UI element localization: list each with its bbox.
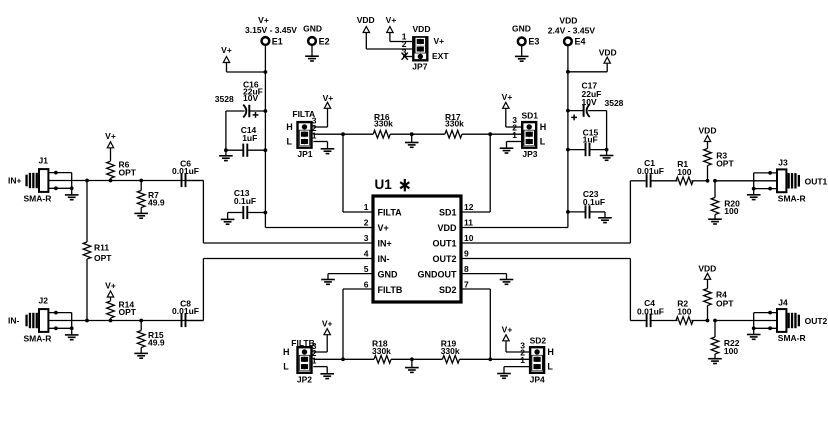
svg-text:SD2: SD2 [439, 285, 457, 295]
ground on U1 pin 8 [461, 274, 513, 285]
svg-text:V+: V+ [105, 131, 116, 141]
wire R1 to OUT1 node [692, 180, 708, 182]
svg-text:100: 100 [677, 167, 691, 177]
svg-text:OUT1: OUT1 [432, 238, 456, 248]
wire node SD2 to JP4 pin 2 [490, 358, 529, 360]
wire V+ rail to U1 pin 2 [265, 227, 373, 229]
ground below R7 [134, 213, 148, 218]
wire OUT2 node to J4 [715, 320, 777, 322]
svg-text:OPT: OPT [716, 159, 734, 169]
junction R7 top [139, 179, 143, 183]
wire R16 to center ground node [390, 133, 412, 135]
jumper JP1 (FILTA H/L) [286, 109, 316, 159]
power flag V+ above JP2 [313, 319, 332, 353]
resistor R6 OPT [107, 160, 137, 181]
wire node SD2 up to U1 pin 7 [489, 289, 491, 359]
wire node FILTB down to JP2 row [342, 289, 344, 359]
svg-text:8: 8 [464, 264, 469, 274]
svg-text:330k: 330k [372, 346, 391, 356]
svg-text:V+: V+ [322, 319, 333, 329]
svg-text:GNDOUT: GNDOUT [418, 269, 457, 279]
wire C16 to C14 ground leg [225, 111, 227, 150]
junction V+ rail / V+ flag [264, 70, 268, 74]
power flag VDD (JP7 pin 2) [357, 15, 412, 49]
svg-text:4: 4 [364, 249, 369, 259]
test point E1 (V+ 3.15V - 3.45V) [245, 15, 297, 46]
capacitor C14 1uF [226, 125, 266, 157]
wire ground node to R17 [412, 133, 445, 135]
svg-text:330k: 330k [445, 119, 464, 129]
svg-text:49.9: 49.9 [148, 198, 165, 208]
wire VDD rail to U1 pin 11 [461, 227, 568, 229]
junction R20 top [713, 179, 717, 183]
svg-text:OUT2: OUT2 [805, 316, 828, 326]
capacitor C17 22uF 10V (3528) [568, 81, 624, 121]
svg-text:9: 9 [464, 249, 469, 259]
svg-text:V+: V+ [105, 281, 116, 291]
svg-text:V+: V+ [378, 223, 389, 233]
capacitor C23 0.1uF [568, 189, 605, 218]
svg-text:SMA-R: SMA-R [24, 333, 52, 343]
svg-text:R11: R11 [94, 243, 109, 253]
ground below R20 [708, 219, 722, 224]
svg-text:H: H [540, 122, 547, 132]
svg-text:IN+: IN+ [8, 176, 22, 186]
svg-text:SD1: SD1 [439, 207, 457, 217]
wire U1 pin 9 out [461, 258, 630, 260]
power flag V+ (left) [221, 45, 265, 72]
ground on U1 pin 5 [321, 274, 373, 285]
power flag V+ above JP1 [313, 93, 333, 127]
svg-text:OPT: OPT [119, 167, 137, 177]
connector J2 SMA-R (IN-) [8, 296, 79, 344]
ground below R22 [708, 359, 722, 364]
svg-text:10: 10 [464, 233, 474, 243]
svg-text:E1: E1 [272, 36, 283, 46]
svg-text:E3: E3 [528, 37, 539, 47]
svg-text:E4: E4 [575, 37, 586, 47]
svg-text:VDD: VDD [559, 16, 577, 26]
ground below C13 [221, 213, 235, 225]
resistor R20 100 [711, 181, 740, 219]
test point E2 (GND) [303, 24, 329, 47]
svg-text:VDD: VDD [437, 223, 457, 233]
wire down to U1 pin 3 [202, 181, 204, 244]
svg-text:GND: GND [512, 24, 531, 34]
junction FILTB divider ground node [410, 357, 414, 361]
svg-text:1: 1 [520, 355, 525, 365]
svg-text:L: L [287, 137, 293, 147]
svg-text:OPT: OPT [119, 307, 137, 317]
wire J1 to C6 chain [48, 180, 203, 182]
junction node SD2 [488, 357, 492, 361]
wire R2 to OUT2 node [692, 320, 708, 322]
wire R17 to node SD1 [462, 133, 490, 135]
resistor R11 OPT [83, 181, 112, 321]
junction R6 bottom [109, 179, 113, 183]
svg-text:V+: V+ [323, 93, 334, 103]
svg-text:0.1uF: 0.1uF [234, 196, 256, 206]
svg-text:E2: E2 [319, 36, 330, 46]
power flag V+ above JP4 [502, 325, 529, 352]
test point E4 (VDD 2.4V - 3.45V) [548, 16, 596, 47]
svg-text:VDD: VDD [699, 125, 717, 135]
svg-text:IN-: IN- [378, 254, 390, 264]
junction C13 / V+ rail [264, 211, 268, 215]
junction C14 left / ground leg [224, 148, 228, 152]
svg-text:11: 11 [464, 218, 473, 228]
resistor R2 100 [676, 299, 693, 325]
capacitor C6 0.01uF [172, 158, 199, 187]
wire C8 to U1 pin 4 corner [186, 320, 204, 322]
wire OUT2 down to C4 row [629, 259, 631, 321]
junction node FILTA [341, 132, 345, 136]
wire C4 to R2 [651, 320, 678, 322]
svg-text:H: H [286, 122, 293, 132]
resistor R16 330k [373, 112, 393, 138]
resistor R17 330k [445, 112, 464, 138]
wire node FILTB to R18 [343, 358, 374, 360]
wire into U1 pin 4 [203, 258, 373, 260]
capacitor C1 0.01uF [637, 158, 664, 187]
ground below C23 [598, 212, 612, 223]
wire U1 pin 6 out [343, 288, 373, 290]
svg-text:2.4V - 3.45V: 2.4V - 3.45V [548, 25, 596, 35]
svg-text:V+: V+ [434, 36, 445, 46]
capacitor C4 0.01uF [637, 298, 664, 327]
capacitor C16 22uF 10V (3528) [215, 80, 266, 118]
svg-text:FILTB: FILTB [378, 285, 403, 295]
junction C15 / VDD rail [566, 148, 570, 152]
wire node SD1 to JP3 pin 2 [490, 133, 521, 135]
svg-text:OPT: OPT [94, 253, 112, 263]
junction node FILTB [341, 357, 345, 361]
ground on JP3 pin 1 [500, 142, 521, 154]
connector J1 SMA-R (IN+) [8, 156, 79, 204]
ground below C15 [600, 150, 614, 161]
svg-text:JP1: JP1 [297, 149, 312, 159]
svg-text:JP3: JP3 [522, 149, 537, 159]
wire up to U1 pin 4 [202, 259, 204, 321]
power flag V+ above R14 [105, 281, 116, 301]
svg-text:12: 12 [464, 202, 474, 212]
resistor R3 OPT [704, 149, 735, 181]
wire U1 pin 10 out [461, 242, 630, 244]
wire node SD1 down to U1 pin 12 [489, 134, 491, 212]
svg-text:V+: V+ [502, 92, 513, 102]
ground below C14 [219, 150, 233, 160]
power flag V+ above R6 [105, 131, 116, 161]
capacitor C13 0.1uF [228, 188, 266, 219]
svg-text:J4: J4 [778, 297, 788, 307]
svg-text:JP2: JP2 [297, 375, 312, 385]
svg-text:V+: V+ [502, 325, 513, 335]
svg-text:3: 3 [364, 233, 369, 243]
svg-text:J1: J1 [39, 156, 49, 166]
svg-text:VDD: VDD [413, 24, 431, 34]
resistor R4 OPT [704, 289, 735, 321]
junction C15 / C17 ground leg [605, 148, 609, 152]
svg-text:FILTA: FILTA [378, 207, 403, 217]
svg-text:V+: V+ [386, 15, 397, 25]
svg-text:1: 1 [364, 202, 369, 212]
svg-text:SMA-R: SMA-R [24, 193, 52, 203]
jumper JP3 (SD1 H/L) [512, 111, 546, 159]
svg-text:VDD: VDD [698, 263, 716, 273]
wire into U1 pin 1 [343, 211, 373, 213]
wire node FILTA down to U1 pin 1 [342, 134, 344, 212]
svg-text:IN-: IN- [8, 316, 20, 326]
svg-text:7: 7 [464, 280, 469, 290]
wire JP2 pin 2 to node FILTB [313, 358, 343, 360]
ground below R18/R19 node [405, 359, 419, 372]
junction R3 bottom [706, 179, 710, 183]
svg-text:L: L [283, 362, 289, 372]
ground below E2 [305, 45, 319, 61]
wire to C4 [630, 320, 645, 322]
junction C16 / V+ rail [264, 109, 268, 113]
svg-text:JP4: JP4 [530, 375, 545, 385]
junction R22 top [713, 319, 717, 323]
ground below E3 [515, 46, 529, 62]
svg-text:OUT2: OUT2 [432, 254, 456, 264]
resistor R7 49.9 [137, 181, 164, 214]
svg-text:SD1: SD1 [522, 111, 539, 121]
svg-text:VDD: VDD [599, 47, 617, 57]
wire into U1 pin 3 [203, 242, 373, 244]
svg-text:100: 100 [724, 346, 738, 356]
resistor R1 100 [676, 159, 693, 185]
svg-text:3: 3 [402, 47, 407, 57]
connector J3 SMA-R (OUT1) [747, 158, 828, 204]
resistor R19 330k [441, 338, 460, 363]
power flag VDD above R3 [699, 125, 717, 148]
jumper JP7 (VDD / EXT select) [402, 24, 450, 72]
svg-text:VDD: VDD [357, 15, 375, 25]
svg-text:1: 1 [312, 356, 317, 366]
junction J1 / R11 [85, 179, 89, 183]
svg-text:OUT1: OUT1 [805, 176, 828, 186]
wire ground node to R19 [412, 358, 443, 360]
junction R14 bottom [109, 319, 113, 323]
wire C17 to C15 ground leg [606, 111, 608, 150]
op-amp U1 [364, 177, 474, 302]
connector J4 SMA-R (OUT2) [747, 297, 828, 343]
wire OUT1 node to J3 [715, 180, 777, 182]
junction J2 / R11 [85, 319, 89, 323]
wire into U1 pin 12 [461, 211, 490, 213]
test point E3 (GND) [512, 24, 539, 47]
svg-text:JP7: JP7 [412, 62, 427, 72]
junction R4 bottom [706, 319, 710, 323]
ground below R15 [134, 353, 148, 358]
svg-text:1: 1 [312, 130, 317, 140]
svg-text:SD2: SD2 [530, 336, 547, 346]
junction C23 / VDD rail [566, 210, 570, 214]
svg-text:H: H [547, 347, 554, 357]
ground on JP1 pin 1 [313, 142, 334, 154]
svg-text:3528: 3528 [605, 98, 624, 108]
svg-text:6: 6 [364, 280, 369, 290]
svg-text:49.9: 49.9 [148, 338, 165, 348]
svg-text:EXT: EXT [432, 51, 449, 61]
wire to C1 [630, 180, 645, 182]
svg-text:J3: J3 [778, 158, 788, 168]
wire R19 to node SD2 [459, 358, 490, 360]
power flag VDD (right) [568, 47, 617, 71]
power flag VDD above R4 [698, 263, 716, 288]
wire into U1 pin 7 [461, 288, 490, 290]
resistor R18 330k [372, 338, 391, 363]
svg-text:GND: GND [378, 269, 399, 279]
resistor R22 100 [711, 321, 740, 359]
ground below R16/R17 node [405, 134, 419, 147]
svg-text:V+: V+ [258, 15, 269, 25]
svg-text:GND: GND [303, 24, 322, 34]
power flag V+ (JP7 pin 1) [386, 15, 413, 42]
wire OUT1 up to C1 row [629, 181, 631, 243]
wire JP1 pin 2 to node FILTA [313, 133, 343, 135]
wire E4 to VDD rail [567, 46, 569, 228]
svg-text:100: 100 [677, 307, 691, 317]
svg-text:J2: J2 [39, 296, 49, 306]
svg-text:V+: V+ [221, 45, 232, 55]
ground on JP4 pin 1 [497, 367, 529, 379]
svg-text:H: H [283, 347, 290, 357]
svg-text:1uF: 1uF [242, 133, 257, 143]
junction node SD1 [488, 132, 492, 136]
wire C1 to R1 [651, 180, 678, 182]
svg-text:1: 1 [512, 130, 517, 140]
svg-text:SMA-R: SMA-R [778, 333, 806, 343]
svg-text:330k: 330k [374, 119, 393, 129]
power flag V+ above JP3 [502, 92, 521, 127]
ground on JP2 pin 1 [313, 367, 334, 379]
resistor R15 49.9 [137, 321, 164, 354]
wire E1 to V+ rail [264, 45, 266, 227]
svg-text:5: 5 [364, 264, 369, 274]
svg-text:2: 2 [364, 218, 369, 228]
svg-text:3528: 3528 [215, 94, 234, 104]
junction C14 / V+ rail [264, 148, 268, 152]
junction VDD rail / VDD flag [566, 70, 570, 74]
svg-text:IN+: IN+ [378, 238, 392, 248]
wire R18 to center ground node [391, 358, 412, 360]
capacitor C8 0.01uF [172, 298, 199, 327]
junction C17 / VDD rail [566, 109, 570, 113]
svg-text:U1: U1 [375, 177, 393, 192]
svg-text:3.15V - 3.45V: 3.15V - 3.45V [245, 25, 297, 35]
svg-text:L: L [540, 137, 546, 147]
wire C6 to U1 pin 3 corner [186, 180, 204, 182]
junction R15 top [139, 319, 143, 323]
svg-text:100: 100 [724, 206, 738, 216]
wire node FILTA to R16 [343, 133, 373, 135]
svg-text:10V: 10V [243, 93, 258, 103]
jumper JP4 (SD2 H/L) [520, 336, 554, 385]
svg-text:L: L [547, 362, 553, 372]
svg-text:SMA-R: SMA-R [778, 193, 806, 203]
capacitor C15 1uF [568, 127, 607, 156]
wire J2 to C8 chain [48, 320, 203, 322]
svg-text:OPT: OPT [716, 298, 734, 308]
junction FILTA divider ground node [410, 132, 414, 136]
jumper JP2 (FILTB H/L) [283, 338, 317, 385]
no-connect X on JP7 pin 3 [402, 53, 413, 60]
resistor R14 OPT [107, 299, 137, 320]
